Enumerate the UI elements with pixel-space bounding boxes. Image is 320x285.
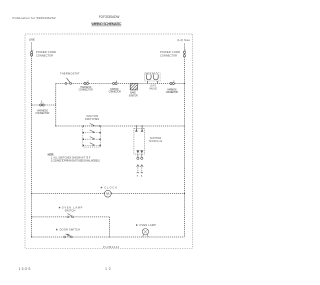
svg-text:FGF333SADW: FGF333SADW bbox=[99, 15, 120, 19]
svg-text:MODULE: MODULE bbox=[149, 140, 162, 143]
svg-text:12: 12 bbox=[105, 267, 111, 271]
svg-text:P12M0043: P12M0043 bbox=[103, 246, 120, 249]
svg-text:CONNECTOR: CONNECTOR bbox=[166, 91, 179, 94]
svg-text:Publication for 5995436202: Publication for 5995436202 bbox=[13, 16, 56, 20]
svg-text:SWITCHES: SWITCHES bbox=[85, 118, 100, 121]
svg-text:SWITCH: SWITCH bbox=[65, 209, 76, 212]
svg-text:VALVE: VALVE bbox=[149, 87, 157, 90]
svg-text:CONNECTOR: CONNECTOR bbox=[160, 53, 177, 57]
svg-text:CLOCK: CLOCK bbox=[104, 185, 117, 189]
svg-text:WIRING SCHEMATIC: WIRING SCHEMATIC bbox=[91, 22, 121, 26]
svg-text:BAKE BROIL: BAKE BROIL bbox=[146, 73, 159, 76]
svg-text:13GS: 13GS bbox=[19, 267, 31, 271]
svg-text:IGNITOR: IGNITOR bbox=[129, 94, 138, 97]
svg-text:LINE: LINE bbox=[29, 38, 35, 42]
svg-text:CONNECTOR: CONNECTOR bbox=[36, 53, 53, 57]
svg-text:CONNECTOR: CONNECTOR bbox=[79, 89, 93, 92]
svg-text:CONNECTOR: CONNECTOR bbox=[109, 91, 122, 94]
svg-text:(L2) Neu: (L2) Neu bbox=[177, 38, 190, 42]
svg-text:OVEN LAMP: OVEN LAMP bbox=[139, 224, 156, 227]
svg-text:DOOR SWITCH: DOOR SWITCH bbox=[60, 228, 81, 231]
svg-text:CONNECTOR: CONNECTOR bbox=[35, 112, 49, 115]
svg-text:THERMOSTAT: THERMOSTAT bbox=[60, 72, 80, 76]
svg-text:2. CONNECTOR PIN N IS NOT USED: 2. CONNECTOR PIN N IS NOT USED ON ALL MO… bbox=[51, 160, 100, 163]
